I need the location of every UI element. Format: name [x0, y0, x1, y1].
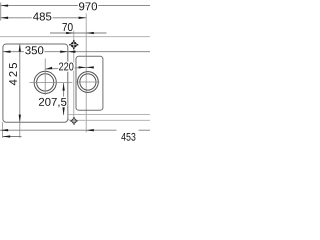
tap hole symbol [69, 40, 78, 49]
wire dimension line 207,5 vertical [63, 83, 65, 115]
wire arrow 70 right (outside, pointing left) [86, 32, 94, 34]
wire dimension line 425 vertical [19, 44, 21, 122]
wire arrow 207,5 up [62, 83, 64, 91]
extension line left bowl edge down [2, 122, 4, 138]
wire arrow 220 left [45, 67, 52, 69]
wire arrow bottom-left dim left [3, 135, 11, 137]
right drain circle outer [78, 72, 99, 93]
label 425 [9, 63, 17, 85]
label 220 [59, 62, 73, 70]
label 350 [25, 46, 43, 54]
left drain circle inner [37, 74, 54, 91]
label 970 [79, 2, 97, 10]
wire arrow 485 left [1, 17, 9, 19]
extension line left edge [0, 3, 2, 21]
extension 425 line down [19, 122, 21, 138]
left bowl outline [3, 44, 68, 122]
node left drain horizontal centerline [30, 81, 73, 83]
wire arrow 350 right [60, 51, 68, 53]
wire arrow 425 down [19, 115, 21, 123]
wire dimension line 350 + chained line right [3, 51, 150, 53]
wire arrow chained dim left (at bowl edge, pointing left) [68, 51, 76, 53]
wire dimension line 220 [45, 67, 92, 69]
drainer bottom outline [68, 110, 150, 120]
node right drain horizontal centerline [77, 81, 100, 83]
wire arrow 207,5 down [62, 107, 64, 115]
wire dimension line 970 [1, 5, 151, 7]
right bowl outline [76, 56, 103, 110]
wire dimension line 485 [1, 17, 87, 19]
label 485 [33, 12, 51, 20]
label 453 [121, 133, 135, 141]
wire arrow 350 left [3, 51, 11, 53]
wire arrow bottom left [1, 129, 9, 131]
label 207,5 [39, 98, 66, 107]
node tap-hole centerline [73, 31, 75, 119]
wire bottom dimension line 453 [0, 129, 117, 131]
wire arrow 970 left [1, 4, 9, 6]
wire small bottom-left dimension line [3, 136, 22, 138]
right drain circle inner [80, 74, 96, 90]
left drain circle outer [34, 71, 56, 93]
wire arrow 425 up [19, 44, 21, 52]
label 70 [62, 23, 72, 31]
drainer step line [67, 114, 150, 116]
node sink centerline [85, 14, 87, 133]
wire arrow 70 left (outside, pointing right) [66, 32, 74, 34]
sink top edge [0, 36, 150, 38]
wire dimension line 70 [50, 32, 107, 34]
node left drain vertical centerline [44, 59, 46, 96]
wire arrow 220 right inner (pointing right) [79, 66, 87, 68]
wire arrow 220 right (outside, pointing left) [86, 66, 94, 68]
wire arrow 485 right [79, 17, 87, 19]
wire arrow 453 left [86, 129, 94, 131]
knob symbol front rim [70, 117, 77, 125]
